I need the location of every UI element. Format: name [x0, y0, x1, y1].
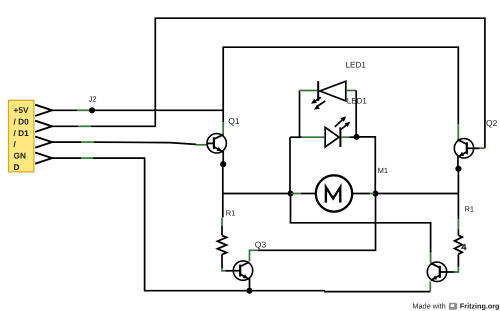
pin lead GND (green tip): [81, 157, 93, 159]
wire motor bridge: motor left down, across, to Q4 collector: [291, 194, 431, 253]
wire GND down to bottom rail: [93, 158, 325, 291]
Q1 collector pin (green): [222, 122, 224, 136]
Q1 emitter lead to junction: [222, 151, 224, 165]
pin lead D0: [52, 125, 78, 127]
svg-text:M1: M1: [378, 166, 388, 175]
wire D1 to Q1 base: [94, 142, 196, 144]
svg-text:LED1: LED1: [347, 97, 368, 106]
wire bottom LED to junction dot: [350, 136, 357, 138]
wire +5V inner loop to Q1/Q2 collectors: [223, 47, 458, 124]
resistor R1 right bottom lead: [457, 254, 459, 267]
Q4 emitter pin to rail (green): [429, 282, 431, 292]
svg-text:Q1: Q1: [228, 116, 240, 126]
wire D0 end segment into Q2 base (green): [480, 147, 485, 149]
pin lead D0 (green tip): [78, 125, 91, 127]
Q4 collector pin (green): [430, 253, 432, 263]
wire Q1 emitter down to R1: [222, 164, 224, 217]
junction dot motor left: [287, 190, 293, 196]
junction dot Q2 emitter: [455, 166, 461, 172]
wire LED junction to motor right: [357, 137, 376, 194]
junction dot motor right: [372, 190, 378, 196]
pin lead D1 (green tip): [81, 141, 94, 143]
transistor Q3: [233, 261, 252, 280]
resistor R1 left zigzag: [218, 236, 227, 255]
junction dot LED net: [353, 134, 359, 140]
svg-text:J2: J2: [89, 95, 97, 104]
wire Q2 emitter down to R1 right: [457, 169, 459, 219]
transistor Q1: [207, 134, 226, 153]
transistor Q2 (mirrored): [454, 139, 479, 158]
wire D0 up over the top to Q2 base: [91, 18, 485, 148]
connector J2 pin 1 chevron: [35, 105, 52, 116]
Q2 emitter lead to junction: [457, 156, 459, 169]
motor M1 left pin (green): [291, 193, 302, 195]
resistor R1 right top lead: [457, 219, 459, 230]
LED1 top (pointing left): [300, 81, 357, 109]
label 4 (value): [462, 244, 467, 250]
wire motor right down to Q3 collector: [258, 194, 376, 251]
pin lead GND: [52, 157, 81, 159]
wire emitter node to motor left: [223, 193, 291, 195]
svg-text:LED1: LED1: [346, 61, 367, 70]
svg-text:/ D0: / D0: [14, 116, 30, 126]
pin lead +5V (green tip): [77, 109, 92, 111]
svg-text:R1: R1: [226, 209, 236, 218]
svg-text:+5V: +5V: [14, 105, 29, 115]
resistor R1 left top lead: [221, 218, 223, 226]
Q3 emitter lead to rail: [249, 278, 251, 291]
wire LED net left vertical: [289, 137, 291, 193]
resistor R1 right zigzag: [455, 235, 463, 254]
bottom rail right segment: [325, 290, 430, 293]
junction dot Q1 emitter: [220, 161, 226, 167]
junction dot J2: [89, 107, 95, 113]
LED1 bottom (pointing right): [290, 116, 350, 147]
svg-text:Q2: Q2: [486, 118, 498, 128]
resistor R1 left bottom lead to Q3 base: [221, 254, 223, 268]
wire +5V to Q1 collector net: [92, 109, 223, 111]
transistor Q4 (mirrored): [427, 262, 446, 281]
svg-text:Made with: Made with: [412, 301, 445, 310]
motor M1 right pin black part: [352, 193, 370, 195]
pin lead D1: [52, 141, 81, 143]
motor M1 right pin (green): [370, 193, 376, 195]
connector J2 pin 2 chevron: [35, 121, 52, 132]
footer: Made with Fritzing.org: [412, 301, 499, 310]
svg-text:D: D: [14, 162, 20, 172]
motor M1 body: [316, 175, 352, 211]
connector J2 pin 3 chevron: [35, 137, 52, 148]
junction dot Q3 emitter: [246, 288, 252, 294]
Q2 collector pin (green): [457, 124, 459, 141]
Q3 collector pin (green): [250, 250, 259, 261]
svg-text:Fritzing.org: Fritzing.org: [460, 301, 500, 310]
wire top LED left vertical: [299, 91, 301, 138]
pin lead +5V: [52, 109, 77, 111]
motor M1 left pin black part: [301, 193, 315, 195]
svg-text:/ D1: / D1: [14, 128, 30, 138]
svg-text:GN: GN: [14, 151, 26, 161]
wire motor right to Q2 emitter net: [376, 193, 459, 195]
Q1 base pin (green): [196, 144, 207, 146]
svg-text:R1: R1: [465, 204, 475, 213]
svg-text:Q3: Q3: [255, 240, 267, 250]
wire top LED right down to junction: [355, 91, 357, 137]
connector J2 yellow label box: [9, 100, 34, 172]
connector J2 pin 4 chevron: [35, 153, 52, 164]
